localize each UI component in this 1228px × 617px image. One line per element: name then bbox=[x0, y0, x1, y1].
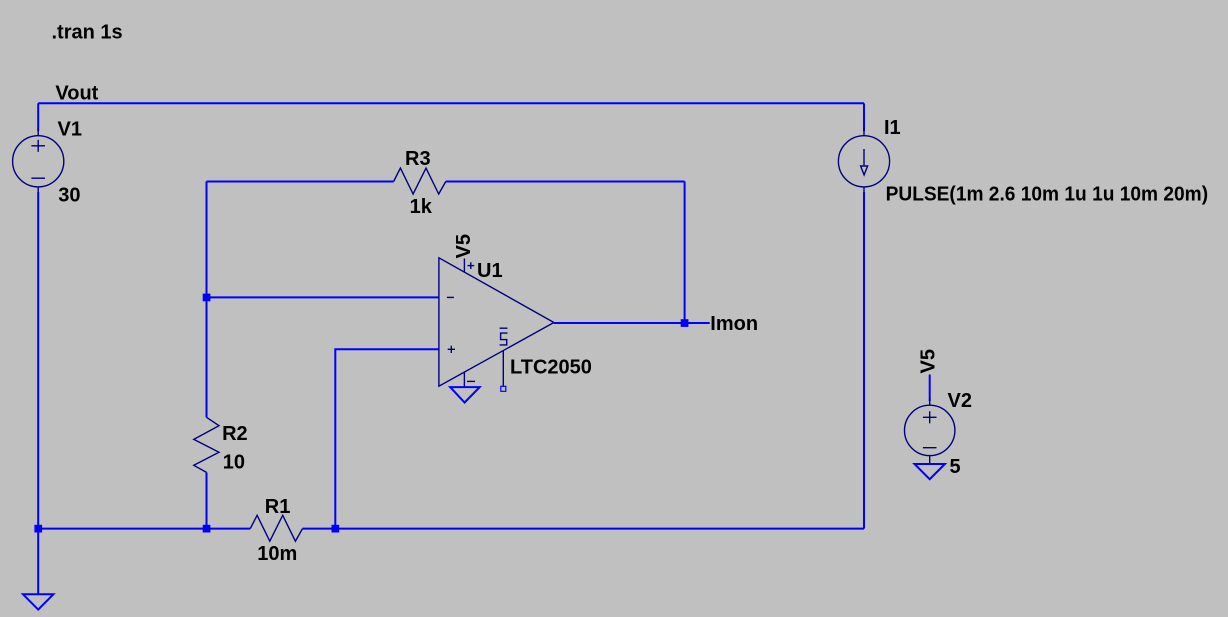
wire bottom left bbox=[38, 528, 250, 530]
svg-text:LTC2050: LTC2050 bbox=[510, 357, 592, 379]
wire R2 top bbox=[206, 297, 208, 417]
junction R1 right node bbox=[332, 525, 340, 533]
svg-text:1k: 1k bbox=[410, 196, 433, 218]
svg-text:R1: R1 bbox=[265, 496, 291, 518]
current source I1 bbox=[838, 128, 889, 195]
wire V1 top bbox=[37, 103, 39, 131]
svg-text:10: 10 bbox=[223, 451, 245, 473]
resistor R3 bbox=[394, 168, 446, 194]
wire left branch top (R3 left to minus node) bbox=[206, 182, 208, 298]
wire R3 right bbox=[446, 181, 685, 183]
svg-text:30: 30 bbox=[58, 184, 80, 206]
wire ground stub bottom left bbox=[37, 529, 39, 595]
svg-text:10m: 10m bbox=[257, 543, 297, 565]
svg-text:Vout: Vout bbox=[55, 82, 98, 104]
junction output node bbox=[681, 319, 689, 327]
svg-text:U1: U1 bbox=[477, 260, 503, 282]
resistor R2 bbox=[194, 417, 219, 472]
ground V2 bbox=[915, 464, 945, 479]
wire R2 bottom bbox=[206, 472, 208, 528]
svg-text:V2: V2 bbox=[948, 390, 972, 412]
svg-text:I1: I1 bbox=[884, 117, 901, 139]
junction bottom left node bbox=[34, 525, 42, 533]
svg-text:R3: R3 bbox=[405, 148, 431, 170]
svg-text:V5: V5 bbox=[918, 349, 940, 373]
svg-text:5: 5 bbox=[950, 456, 961, 478]
ground bottom left bbox=[23, 594, 53, 609]
wire inverting input bbox=[207, 296, 439, 298]
svg-text:.tran 1s: .tran 1s bbox=[52, 22, 123, 44]
svg-text:V5: V5 bbox=[453, 234, 475, 258]
svg-text:Imon: Imon bbox=[710, 313, 758, 335]
wire R3 left bbox=[207, 181, 394, 183]
wire I1 top bbox=[863, 103, 865, 131]
svg-text:PULSE(1m 2.6 10m 1u 1u 10m 20m: PULSE(1m 2.6 10m 1u 1u 10m 20m) bbox=[886, 183, 1209, 205]
junction R2 bottom node bbox=[203, 525, 211, 533]
op-amp U1 bbox=[439, 258, 554, 387]
voltage source V2 bbox=[905, 398, 955, 464]
wire V5 stub bbox=[929, 375, 931, 402]
wire bottom right bbox=[303, 528, 865, 530]
wire noninverting input bbox=[335, 349, 439, 528]
pin label 5 (active low) bbox=[500, 328, 508, 345]
pin 5 open square bbox=[501, 386, 506, 391]
svg-text:R2: R2 bbox=[222, 423, 248, 445]
wire V1 bottom bbox=[37, 192, 39, 529]
junction minus node bbox=[203, 294, 211, 302]
wire feedback vertical bbox=[684, 182, 686, 324]
wire output bbox=[554, 322, 710, 324]
ground op-amp V- bbox=[450, 387, 480, 402]
wire I1 bottom bbox=[863, 192, 865, 529]
resistor R1 bbox=[250, 515, 302, 541]
voltage source V1 bbox=[13, 128, 64, 195]
svg-text:V1: V1 bbox=[58, 118, 82, 140]
wire top Vout net bbox=[38, 102, 864, 104]
